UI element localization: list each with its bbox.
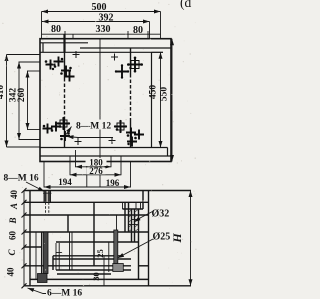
svg-text:H: H bbox=[170, 233, 184, 244]
svg-text:196: 196 bbox=[106, 178, 120, 188]
svg-text:Ø32: Ø32 bbox=[152, 209, 170, 220]
svg-text:260: 260 bbox=[17, 88, 27, 103]
svg-text:30: 30 bbox=[91, 272, 101, 281]
svg-text:6—M 16: 6—M 16 bbox=[47, 289, 82, 299]
svg-text:C: C bbox=[7, 249, 17, 256]
svg-text:450: 450 bbox=[149, 85, 159, 100]
svg-text:8—M 16: 8—M 16 bbox=[4, 174, 39, 184]
svg-text:194: 194 bbox=[58, 177, 72, 187]
svg-text:(d: (d bbox=[180, 0, 191, 10]
svg-text:500: 500 bbox=[92, 2, 107, 13]
svg-text:80: 80 bbox=[133, 25, 143, 36]
svg-text:330: 330 bbox=[96, 24, 111, 35]
svg-text:276: 276 bbox=[89, 166, 103, 176]
svg-text:25: 25 bbox=[95, 249, 105, 258]
svg-text:410: 410 bbox=[0, 85, 6, 100]
svg-text:60: 60 bbox=[8, 231, 18, 241]
svg-text:A: A bbox=[9, 203, 19, 210]
svg-text:392: 392 bbox=[99, 13, 114, 24]
svg-text:40: 40 bbox=[9, 190, 19, 200]
svg-text:Ø25: Ø25 bbox=[153, 232, 171, 243]
svg-text:40: 40 bbox=[6, 267, 16, 277]
svg-text:550: 550 bbox=[160, 87, 170, 102]
svg-text:B: B bbox=[8, 217, 18, 224]
svg-text:8—M 12: 8—M 12 bbox=[76, 122, 111, 132]
